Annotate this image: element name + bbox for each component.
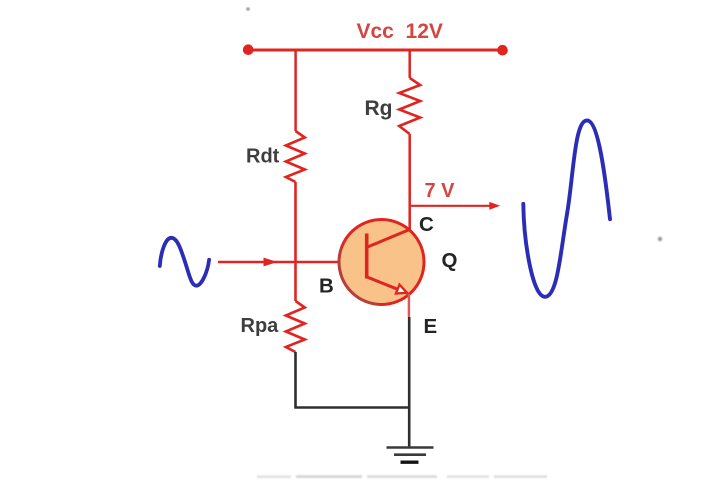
wire: output tap: [410, 205, 491, 207]
wire: Rdt to base node B: [294, 182, 297, 301]
wire: Rpa to ground bus (black): [296, 352, 410, 408]
svg-text:Vcc 12V: Vcc 12V: [357, 20, 443, 43]
wire: emitter stub (red): [408, 294, 410, 317]
svg-text:C: C: [419, 213, 434, 236]
transistor Q base bar: [365, 234, 369, 279]
transistor Q emitter stroke: [368, 277, 400, 290]
wire: rail to Rg: [408, 50, 411, 78]
stray speck top: [246, 7, 249, 10]
svg-text:E: E: [424, 315, 438, 338]
input source sine wave: [160, 238, 209, 286]
arrowhead: input: [264, 258, 278, 267]
node: left rail terminal: [243, 44, 254, 55]
resistor Rpa: [286, 301, 305, 352]
svg-text:B: B: [319, 274, 334, 297]
node: right rail terminal: [497, 45, 508, 56]
svg-text:Rg: Rg: [365, 97, 393, 120]
wire: rail to Rdt: [294, 50, 297, 131]
stray smudge right: [658, 237, 662, 241]
transistor Q body shading arc: [339, 248, 378, 305]
transistor Q collector stroke: [368, 229, 411, 247]
svg-text:Rdt: Rdt: [246, 145, 280, 167]
transistor Q emitter arrowhead (open): [396, 285, 407, 294]
output waveform sine: [523, 120, 610, 296]
resistor Rdt: [286, 131, 305, 182]
resistor Rg: [399, 78, 420, 134]
wire: Vcc supply rail: [246, 49, 504, 52]
cropped caption remnant at bottom: [257, 475, 547, 478]
svg-text:Q: Q: [442, 249, 458, 272]
arrowhead: output: [489, 202, 500, 210]
wire: input to base: [218, 261, 367, 263]
transistor Q body: [339, 220, 424, 305]
wire: emitter to ground (black): [408, 317, 411, 448]
ground symbol: [387, 448, 434, 463]
svg-text:Rpa: Rpa: [241, 315, 280, 337]
wire: Rg to collector node: [408, 134, 411, 230]
svg-text:7 V: 7 V: [425, 180, 456, 202]
